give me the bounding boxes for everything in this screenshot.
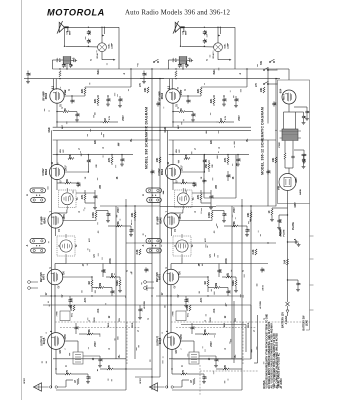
- svg-text:250V: 250V: [118, 207, 120, 213]
- wire lamp feed: [66, 45, 98, 48]
- svg-text:1M: 1M: [104, 118, 107, 121]
- wire rail M1: [125, 199, 127, 390]
- resistor R8: [92, 211, 97, 221]
- svg-text:220: 220: [108, 364, 111, 369]
- wire bus B2: [24, 78, 164, 80]
- wire left rail: [166, 130, 168, 388]
- label v5 pin: [46, 332, 67, 349]
- label battery lead: [282, 312, 288, 328]
- capacitor C12: [71, 182, 82, 187]
- tuning gang BTC1: [142, 188, 162, 202]
- capacitor C35: [301, 155, 307, 165]
- resistor R14: [79, 329, 100, 335]
- svg-text:A 230B: A 230B: [259, 301, 262, 309]
- capacitor BC27: [202, 178, 207, 183]
- wire cross X3: [246, 263, 268, 265]
- svg-text:6BA6: 6BA6: [159, 217, 162, 224]
- output transformer T3: [73, 352, 83, 364]
- capacitor C5: [62, 63, 67, 68]
- resistor BR8: [208, 211, 213, 221]
- label Bcable colors: [210, 317, 250, 327]
- svg-text:270K: 270K: [88, 329, 91, 335]
- tube V4 det avc: [40, 267, 66, 289]
- resistor BR17: [252, 249, 257, 255]
- wire cross gap 243: [160, 242, 242, 244]
- svg-text:10K: 10K: [260, 88, 263, 93]
- svg-text:6AQ5: 6AQ5: [43, 337, 46, 344]
- svg-text:DIAL: DIAL: [108, 43, 111, 49]
- wire V3 bottom: [55, 228, 57, 237]
- capacitor BC28: [226, 171, 231, 181]
- ground G4: [75, 118, 79, 122]
- svg-text:DET AVC: DET AVC: [40, 272, 43, 282]
- resistor BR15: [172, 369, 187, 375]
- wire V5 grid: [170, 302, 172, 333]
- svg-text:RED: RED: [132, 322, 134, 327]
- svg-text:1M: 1M: [204, 281, 207, 284]
- capacitor BC16: [184, 296, 189, 304]
- svg-text:100K: 100K: [92, 212, 95, 218]
- resistor BR2: [197, 87, 202, 96]
- svg-text:250V: 250V: [95, 341, 97, 347]
- resistor BR18: [272, 157, 277, 163]
- wire bus B1: [168, 68, 276, 70]
- dashed bottom right: [200, 365, 258, 396]
- antenna BA1: [173, 21, 187, 35]
- wire power feed top: [276, 69, 289, 80]
- svg-text:LEAD: LEAD: [306, 320, 309, 327]
- svg-text:12K: 12K: [95, 140, 97, 145]
- tuning gang TC2: [26, 239, 46, 253]
- wire rail M3: [267, 140, 269, 206]
- svg-text:KC: KC: [179, 149, 181, 153]
- wire rail R-B: [267, 68, 268, 123]
- svg-text:100: 100: [104, 268, 107, 273]
- wire speaker leads: [149, 386, 182, 388]
- capacitor C8: [106, 95, 111, 102]
- wire V2 plate: [64, 171, 89, 172]
- ground G35: [296, 288, 300, 292]
- svg-text:12K: 12K: [211, 140, 213, 145]
- svg-text:100: 100: [220, 268, 223, 273]
- svg-text:YEL: YEL: [119, 317, 121, 322]
- tube BV2 converter: [158, 161, 183, 183]
- capacitor C10: [72, 112, 81, 119]
- resistor R13: [70, 305, 75, 311]
- dashed lead 1: [171, 321, 256, 323]
- resistor R3: [94, 95, 99, 106]
- ground BG1: [142, 79, 146, 84]
- svg-text:AVC: AVC: [61, 124, 64, 128]
- resistor BR25: [205, 160, 210, 172]
- resistor R19: [144, 87, 149, 93]
- wire antenna top run: [64, 27, 119, 28]
- resistor BR13: [186, 305, 191, 311]
- capacitor BC5: [178, 63, 183, 68]
- label Bv5 pin: [162, 332, 183, 349]
- capacitor C3: [71, 57, 77, 62]
- resistor BR4: [173, 108, 188, 113]
- capacitor BC6: [185, 63, 190, 68]
- wire V2 top: [172, 140, 173, 165]
- wire power feed 2: [276, 78, 278, 80]
- resistor R18: [156, 157, 161, 163]
- wire coil down: [66, 64, 67, 70]
- svg-text:22K: 22K: [185, 154, 188, 159]
- capacitor C11: [87, 155, 92, 172]
- svg-text:RECT: RECT: [283, 93, 285, 100]
- label micro text specks B: [161, 34, 268, 383]
- capacitor BC20: [266, 169, 271, 174]
- svg-text:6BE6: 6BE6: [161, 168, 164, 175]
- resistor BR1: [175, 68, 177, 79]
- ground G9: [86, 380, 90, 384]
- tube V6 rectifier: [280, 88, 297, 104]
- capacitor C31: [291, 152, 294, 162]
- wire V3 plate: [179, 220, 213, 222]
- wire rail M2: [134, 206, 136, 359]
- wire speaker leads: [33, 386, 66, 388]
- wire loop outer: [173, 305, 251, 359]
- power supply box: [278, 80, 310, 204]
- svg-text:PLATE: PLATE: [283, 229, 286, 237]
- wire if1 right: [76, 193, 95, 206]
- svg-text:2.2K: 2.2K: [136, 249, 139, 254]
- svg-text:GRN: GRN: [210, 317, 212, 322]
- ground BG2: [222, 103, 226, 107]
- resistor BR9: [224, 221, 247, 227]
- wire T1 to V3: [55, 210, 67, 214]
- wire V4 plate: [179, 276, 209, 277]
- label misc3: [61, 115, 111, 129]
- svg-text:250V: 250V: [234, 207, 236, 213]
- svg-text:230 B: 230 B: [263, 285, 265, 291]
- resistor R30: [284, 152, 286, 159]
- svg-text:.005: .005: [187, 298, 190, 303]
- IF transformer T2: [57, 234, 78, 258]
- resistor BR3: [210, 95, 215, 106]
- wire sw leads: [269, 70, 278, 84]
- wire rail R-C: [159, 78, 160, 124]
- capacitor C16: [68, 296, 73, 304]
- capacitor BC19: [260, 267, 265, 272]
- phono jack BJ1: [144, 281, 154, 290]
- ground G34: [302, 121, 306, 125]
- svg-text:22K: 22K: [94, 99, 97, 104]
- resistor BR5: [216, 118, 234, 123]
- ground BG7: [234, 289, 238, 293]
- capacitor C24: [110, 288, 115, 297]
- svg-text:250V: 250V: [65, 165, 67, 171]
- wire battery line: [287, 242, 289, 296]
- wire trimmer stub: [102, 27, 105, 37]
- wire rail R-C: [275, 78, 276, 124]
- resistor BR16: [190, 379, 195, 385]
- svg-text:115V: 115V: [296, 177, 298, 183]
- wire box top: [53, 139, 160, 141]
- svg-text:Auto Radio Models 396 and 396-: Auto Radio Models 396 and 396-12: [125, 10, 230, 17]
- label cable colors: [94, 317, 134, 327]
- svg-text:1V: 1V: [46, 292, 48, 295]
- wire ant drop: [64, 27, 65, 47]
- capacitor C2: [87, 39, 92, 47]
- ground BG3: [234, 104, 238, 108]
- wire batt branch: [287, 279, 298, 280]
- svg-text:47K: 47K: [224, 158, 227, 163]
- capacitor BC13: [222, 211, 227, 220]
- wire V2 plate: [180, 171, 205, 172]
- wire below box: [287, 204, 288, 243]
- svg-text:2: 2: [46, 332, 48, 333]
- wire rail M0: [231, 206, 233, 359]
- volume control R12: [116, 277, 121, 289]
- svg-text:DIAL: DIAL: [224, 43, 227, 49]
- wire bus B5: [169, 154, 249, 155]
- capacitor BC8: [222, 95, 227, 102]
- label vib hash: [279, 202, 297, 236]
- label misc2: [85, 163, 98, 179]
- resistor R5: [100, 118, 118, 123]
- pilot lamp BPL1: [212, 42, 230, 58]
- wire grid-cap drop: [118, 27, 120, 69]
- label conn: [147, 285, 149, 291]
- wire V5 plate: [180, 341, 194, 352]
- svg-text:.003: .003: [98, 308, 100, 313]
- svg-text:245V: 245V: [180, 334, 183, 340]
- wire vib bottom: [287, 191, 289, 204]
- label BIF freq: [175, 148, 181, 152]
- wire cross X5: [135, 376, 160, 377]
- wire V1 cathode: [172, 103, 173, 128]
- wire if1 right: [192, 193, 211, 206]
- svg-text:MOTOROLA: MOTOROLA: [47, 8, 105, 18]
- svg-text:250V: 250V: [181, 89, 183, 95]
- svg-text:1V: 1V: [59, 228, 61, 231]
- wire rail R-B: [151, 68, 152, 140]
- volume control BR12: [232, 277, 237, 289]
- dashed lead 1: [55, 321, 140, 323]
- resistor BR20: [224, 154, 229, 165]
- svg-text:1V: 1V: [175, 228, 177, 231]
- label conn2: [143, 301, 146, 309]
- capacitor C1: [87, 27, 92, 36]
- ground BG12: [214, 364, 218, 368]
- wire V3 bottom: [171, 228, 173, 237]
- svg-text:6BA6: 6BA6: [161, 92, 164, 99]
- wire rail M4: [159, 124, 160, 378]
- svg-text:OUTPUT: OUTPUT: [40, 336, 43, 346]
- svg-text:0V: 0V: [175, 285, 177, 288]
- wire rail M4: [275, 124, 276, 207]
- label Bconn2: [259, 301, 262, 309]
- wire ant drop: [180, 27, 181, 47]
- label Bvalue cluster: [162, 59, 266, 367]
- svg-text:RF AMP: RF AMP: [43, 91, 46, 100]
- svg-text:CONV: CONV: [158, 168, 161, 175]
- capacitor C21: [156, 101, 161, 106]
- antenna A1: [57, 21, 71, 35]
- capacitor C9: [118, 96, 123, 104]
- wire V1 plate: [180, 95, 201, 96]
- svg-text:10K: 10K: [182, 179, 185, 184]
- wire R2 top: [201, 68, 248, 87]
- svg-text:115V: 115V: [295, 202, 297, 208]
- coil L2 rf: [54, 79, 57, 90]
- capacitor C13: [106, 211, 111, 220]
- resistor BR10: [204, 277, 209, 292]
- svg-text:2.2K: 2.2K: [252, 249, 255, 254]
- switch S1: [153, 59, 159, 63]
- wire V2 bottom: [56, 179, 58, 190]
- wire V1 plate: [64, 95, 85, 96]
- wire R2 top: [85, 68, 132, 87]
- svg-text:47K: 47K: [227, 273, 230, 278]
- switch S3: [263, 81, 269, 85]
- svg-text:470K: 470K: [117, 221, 120, 227]
- wire xfmr to vib: [285, 141, 293, 153]
- capacitor BC9: [234, 96, 239, 104]
- label IF freq: [59, 148, 65, 152]
- ground BG6: [245, 233, 249, 237]
- tube BV4 det avc: [156, 267, 182, 289]
- svg-text:YEL: YEL: [235, 317, 237, 322]
- wire R8 top: [96, 210, 108, 212]
- svg-text:AVC: AVC: [84, 297, 87, 302]
- capacitor C36: [296, 112, 308, 121]
- resistor BR14: [195, 329, 216, 335]
- resistor BR11: [222, 273, 236, 278]
- svg-text:HASH: HASH: [299, 188, 302, 195]
- svg-text:220: 220: [205, 30, 208, 35]
- fuse F1: [286, 296, 290, 310]
- wire cross X2: [242, 242, 276, 243]
- label value cluster: [46, 59, 150, 367]
- capacitor C6: [69, 63, 74, 68]
- wire rail M3: [151, 140, 152, 390]
- wire V3 plate: [63, 220, 97, 222]
- battery plug P1: [286, 310, 289, 316]
- capacitor BC2: [203, 39, 208, 47]
- svg-text:IN34: IN34: [213, 69, 216, 75]
- IF transformer BT2: [173, 234, 194, 258]
- svg-text:GRN: GRN: [94, 317, 96, 322]
- svg-text:22K: 22K: [69, 154, 72, 159]
- svg-text:7: 7: [181, 348, 183, 349]
- label Bmisc1: [204, 230, 216, 242]
- ground G34: [305, 117, 309, 121]
- capacitor C37: [296, 280, 301, 288]
- resistor R10: [88, 277, 93, 292]
- resistor R23: [100, 364, 126, 370]
- label misc1: [88, 230, 100, 242]
- wire long bus pair upper: [53, 126, 251, 128]
- svg-text:1M: 1M: [220, 118, 223, 121]
- wire to vibrator: [285, 159, 293, 174]
- svg-text:MODEL 396 SCHEMATIC DIAGRA: MODEL 396 SCHEMATIC DIAGRAM: [145, 107, 149, 169]
- svg-text:220: 220: [224, 364, 227, 369]
- svg-text:BATTERY 12V: BATTERY 12V: [282, 312, 285, 328]
- svg-text:47K: 47K: [111, 273, 114, 278]
- wire coil left lead: [52, 60, 63, 69]
- wire spkr to xfmr: [66, 380, 73, 387]
- ground G33: [302, 160, 306, 164]
- ground G2: [106, 103, 110, 107]
- svg-text:2.2M: 2.2M: [99, 283, 102, 288]
- svg-text:1V: 1V: [176, 104, 178, 107]
- svg-text:6AT6: 6AT6: [159, 273, 162, 280]
- svg-text:RED: RED: [248, 322, 250, 327]
- capacitor BC21: [272, 101, 277, 106]
- wire R8 top: [212, 210, 224, 212]
- svg-text:22K: 22K: [197, 89, 200, 94]
- wire lamp out: [218, 52, 232, 61]
- capacitor BC4: [142, 71, 147, 79]
- svg-text:100: 100: [79, 182, 82, 187]
- svg-text:6AQ5: 6AQ5: [159, 337, 162, 344]
- ground G7: [118, 289, 122, 293]
- dashed lead 2: [176, 327, 256, 329]
- wire T2 to V4: [55, 258, 66, 270]
- output transformer BT3: [189, 352, 199, 364]
- svg-text:MODEL 396-12 SCHEMATIC DIA: MODEL 396-12 SCHEMATIC DIAGRAM: [261, 107, 265, 175]
- svg-text:470K: 470K: [233, 221, 236, 227]
- svg-text:NO.47: NO.47: [96, 52, 99, 59]
- svg-text:220K: 220K: [110, 258, 112, 264]
- capacitor C20: [150, 169, 155, 174]
- svg-text:SPARK: SPARK: [279, 228, 282, 236]
- wire rail M1: [241, 199, 243, 390]
- capacitor C14: [129, 226, 134, 233]
- label micro text specks: [42, 37, 151, 382]
- svg-text:SPKR: SPKR: [24, 378, 26, 384]
- svg-text:VIB: VIB: [278, 186, 281, 190]
- capacitor BC1: [203, 27, 208, 36]
- resistor BR22: [208, 283, 228, 289]
- wire bus B6: [182, 263, 246, 265]
- ground BG8: [184, 304, 188, 308]
- svg-text:7: 7: [65, 348, 67, 349]
- oscillator loop wires: [204, 155, 236, 198]
- wire left rail: [50, 130, 52, 388]
- svg-text:500: 500: [280, 218, 283, 223]
- wire grid-cap drop: [234, 27, 236, 69]
- wire cross X3: [130, 263, 152, 265]
- capacitor BC23: [209, 190, 214, 203]
- svg-text:270: 270: [182, 369, 185, 374]
- ground BG4: [191, 118, 195, 122]
- tuning gang BTC2: [142, 239, 162, 253]
- ground BG9: [202, 380, 206, 384]
- svg-text:KC: KC: [63, 149, 65, 153]
- wire V5 plate: [64, 341, 78, 352]
- wire V4 plate: [63, 276, 93, 277]
- svg-text:47K: 47K: [81, 195, 84, 200]
- wire coil left lead: [168, 60, 179, 69]
- ground G3: [118, 104, 122, 108]
- wire cross X1: [100, 205, 160, 206]
- svg-text:0V: 0V: [62, 294, 64, 297]
- svg-text:255V: 255V: [180, 214, 182, 220]
- speaker SP: [24, 378, 42, 392]
- wire V4 cathode: [170, 285, 171, 303]
- capacitor BC22: [236, 154, 241, 163]
- vibrator V7: [278, 174, 297, 191]
- wire bus B6: [66, 263, 130, 265]
- svg-text:OUTPUT: OUTPUT: [156, 336, 159, 346]
- wire V2 bottom: [172, 179, 174, 190]
- wire T2 to V4: [171, 258, 182, 270]
- dashed vert: [242, 322, 244, 364]
